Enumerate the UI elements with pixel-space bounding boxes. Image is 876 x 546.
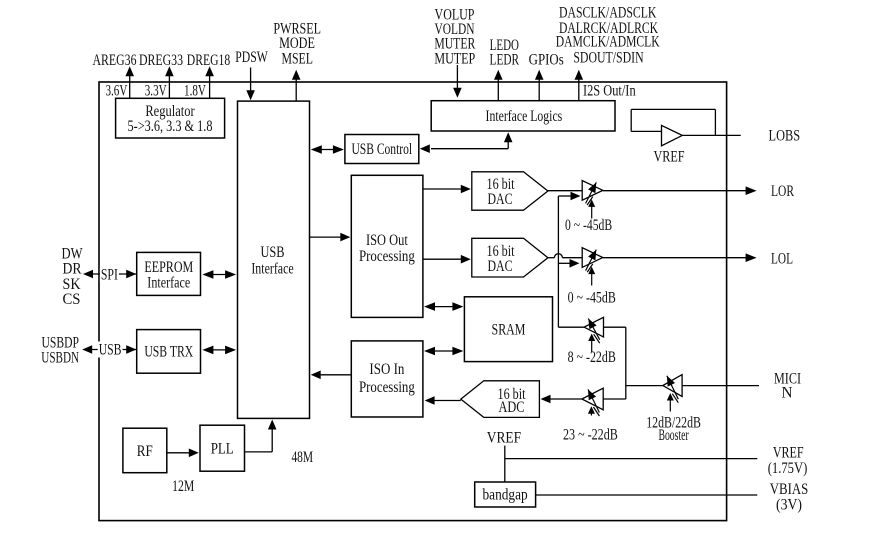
wire USB bus with arrows	[91, 349, 137, 351]
wire AREG36 with arrow up	[129, 75, 131, 98]
svg-text:23 ~ -22dB: 23 ~ -22dB	[563, 426, 618, 443]
svg-text:USB: USB	[261, 244, 285, 261]
svg-text:DAMCLK/ADMCLK: DAMCLK/ADMCLK	[556, 34, 660, 51]
amp A3 8~-22dB sidetone attenuator	[584, 317, 603, 337]
block USB TRX	[137, 330, 201, 374]
svg-text:DREG18: DREG18	[187, 52, 231, 69]
svg-text:GPIOs: GPIOs	[529, 51, 564, 68]
svg-text:DAC: DAC	[488, 191, 513, 208]
wire DREG33 with arrow up	[168, 75, 170, 98]
wire GPIOs arrow up	[538, 79, 540, 101]
dac D1 16-bit DAC	[472, 172, 548, 210]
wire amp A4 to ADC arrow	[550, 398, 582, 400]
amp A5 12dB/22dB booster	[663, 375, 682, 397]
svg-text:Interface: Interface	[147, 275, 190, 292]
svg-text:VREF: VREF	[653, 149, 684, 166]
wire sidetone branch into amp A1	[558, 195, 571, 197]
wire LEDR arrow up	[497, 79, 499, 101]
wire VBIAS output line	[536, 494, 758, 496]
svg-text:DAC: DAC	[488, 258, 513, 275]
wire LOR output line	[603, 190, 746, 192]
amp A2 0~-45dB variable attenuator	[582, 248, 603, 268]
wire MSEL arrow up	[295, 79, 297, 102]
wire DAC2 output with hop over sidetone line	[548, 257, 555, 259]
svg-text:0 ~ -45dB: 0 ~ -45dB	[565, 217, 612, 234]
adc A/D 16-bit ADC	[461, 381, 540, 418]
svg-text:VREF: VREF	[487, 430, 522, 447]
wire mic bus to amp A3	[604, 326, 626, 328]
svg-text:Booster: Booster	[658, 427, 689, 444]
wire VREF output line	[505, 458, 758, 460]
svg-text:EEPROM: EEPROM	[144, 259, 193, 276]
block PLL	[200, 425, 245, 471]
wire USB Interface to USB Control double arrow	[313, 149, 342, 151]
svg-text:MODE: MODE	[279, 35, 315, 52]
wire ADC to ISO In arrow	[433, 400, 461, 402]
svg-text:USB TRX: USB TRX	[144, 344, 193, 361]
wire SDOUT/SDIN arrow up	[578, 79, 580, 101]
svg-text:Interface Logics: Interface Logics	[486, 108, 563, 125]
wire ISO Out to SRAM double arrow	[426, 306, 461, 308]
svg-text:MUTEP: MUTEP	[434, 51, 475, 68]
wire MICIN input line	[682, 385, 759, 387]
wire sidetone vertical bus	[557, 196, 559, 327]
svg-text:5->3.6, 3.3 & 1.8: 5->3.6, 3.3 & 1.8	[128, 118, 213, 135]
op-amp VREF buffer with feedback	[631, 108, 715, 110]
block USB Interface	[238, 101, 310, 418]
block EEPROM Interface	[137, 252, 201, 295]
net label USB	[98, 342, 123, 358]
svg-text:3.3V: 3.3V	[145, 83, 167, 100]
wire mic bus to amp A4	[603, 398, 626, 400]
svg-text:CS: CS	[63, 291, 81, 308]
svg-text:Interface: Interface	[251, 261, 293, 278]
svg-text:N: N	[782, 385, 793, 402]
wire ISO In to USB Interface arrow	[320, 374, 351, 376]
wire RF to PLL arrow	[167, 452, 190, 454]
svg-text:USB Control: USB Control	[351, 141, 412, 158]
svg-text:0 ~ -45dB: 0 ~ -45dB	[568, 289, 616, 306]
wire LOL output line	[603, 257, 746, 259]
wire PDSW arrow down into USB Interface	[250, 68, 252, 92]
svg-text:SPI: SPI	[101, 267, 118, 284]
amp A4 23~-22dB mic attenuator	[582, 388, 603, 410]
block bandgap	[475, 482, 536, 507]
svg-text:I2S Out/In: I2S Out/In	[583, 83, 636, 100]
svg-text:SDOUT/SDIN: SDOUT/SDIN	[573, 50, 643, 67]
svg-text:DREG33: DREG33	[139, 52, 183, 69]
svg-text:(3V): (3V)	[776, 497, 802, 514]
svg-text:bandgap: bandgap	[483, 487, 528, 504]
svg-text:ISO Out: ISO Out	[366, 232, 408, 249]
wire DAC1 output to amp A1	[548, 190, 582, 192]
amp A1 0~-45dB variable attenuator	[582, 181, 603, 201]
svg-text:(1.75V): (1.75V)	[768, 460, 808, 477]
svg-text:USB: USB	[99, 342, 122, 359]
wire VREF vertical	[504, 446, 506, 482]
block Regulator	[116, 98, 225, 138]
wire ISO In to SRAM double arrow	[426, 350, 461, 352]
block ISO In Processing	[351, 341, 423, 417]
svg-text:LOL: LOL	[771, 251, 793, 268]
svg-text:LEDR: LEDR	[490, 51, 520, 68]
svg-text:AREG36: AREG36	[93, 52, 137, 69]
svg-text:VREF: VREF	[773, 445, 804, 462]
svg-text:3.6V: 3.6V	[105, 83, 127, 100]
wire EEPROM to USB Interface double arrow	[204, 274, 234, 276]
wire SPI bus with arrows	[92, 273, 137, 275]
svg-text:LOBS: LOBS	[769, 128, 801, 145]
block ISO Out Processing	[351, 175, 423, 317]
wire USB TRX to USB Interface double arrow	[204, 349, 234, 351]
svg-text:LOR: LOR	[771, 183, 794, 200]
block SRAM	[464, 297, 552, 362]
wire booster output to mic bus	[626, 385, 663, 387]
chip boundary	[99, 82, 727, 521]
wire MUTEP arrow down into Interface Logics	[456, 65, 458, 89]
svg-text:8 ~ -22dB: 8 ~ -22dB	[568, 349, 616, 366]
svg-text:VBIAS: VBIAS	[770, 481, 809, 498]
svg-text:USBDN: USBDN	[41, 349, 79, 366]
svg-text:MSEL: MSEL	[281, 51, 313, 68]
block USB Control	[345, 135, 419, 164]
wire mic vertical bus	[625, 327, 627, 399]
svg-text:RF: RF	[137, 443, 153, 460]
svg-text:ADC: ADC	[499, 399, 525, 416]
block RF	[123, 428, 167, 473]
net label SPI	[100, 267, 119, 283]
svg-text:DASCLK/ADSCLK: DASCLK/ADSCLK	[559, 4, 657, 21]
wire ISO Out to DAC2 arrow	[423, 258, 462, 260]
svg-text:ISO In: ISO In	[369, 361, 404, 378]
dac D2 16-bit DAC	[472, 238, 548, 277]
wire PLL to USB Interface elbow with arrow	[245, 451, 273, 453]
wire USB Control to Interface Logics elbow	[507, 141, 509, 149]
svg-text:Processing: Processing	[359, 379, 415, 396]
svg-text:1.8V: 1.8V	[184, 83, 206, 100]
wire sidetone branch into amp A2	[558, 262, 570, 264]
wire DREG18 with arrow up	[209, 75, 211, 98]
wire USB Interface to ISO Out arrow	[310, 236, 342, 238]
svg-text:PLL: PLL	[211, 440, 234, 457]
svg-text:PDSW: PDSW	[235, 49, 268, 66]
svg-text:Processing: Processing	[359, 248, 415, 265]
svg-text:SRAM: SRAM	[492, 321, 526, 338]
wire ISO Out to DAC1 arrow	[423, 188, 462, 190]
svg-text:12M: 12M	[172, 478, 194, 495]
wire LOBS output	[682, 134, 740, 136]
block Interface Logics	[431, 101, 615, 131]
svg-text:48M: 48M	[291, 449, 313, 466]
